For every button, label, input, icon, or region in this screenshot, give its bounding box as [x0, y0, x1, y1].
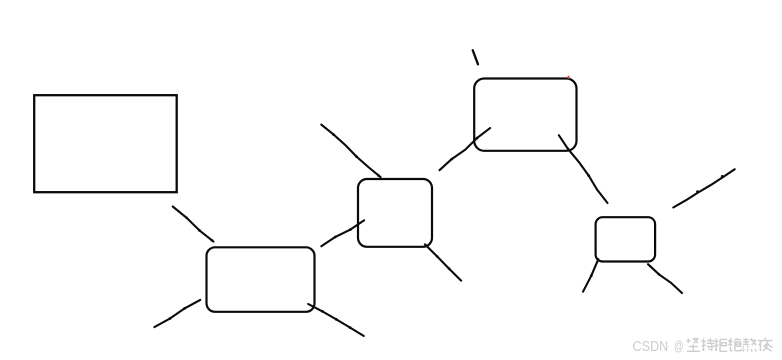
watermark glyph 熬 — [743, 338, 756, 351]
wire from box2 to box3 — [321, 220, 364, 246]
wire from box1 to box2 — [173, 207, 214, 242]
short stroke above box4 — [473, 50, 478, 64]
wire from upper-left into box3 top — [321, 125, 380, 178]
node box 3 (rounded square) — [358, 179, 432, 247]
watermark glyph 绝 — [729, 338, 742, 350]
wire below-right of box5 — [648, 264, 682, 293]
svg-text:@: @ — [674, 338, 684, 353]
detached wire upper-right of box5 — [673, 169, 734, 207]
wire from box4 to box5 — [559, 135, 608, 203]
node box 4 (rounded rectangle, top-right) — [474, 79, 576, 151]
node box 2 (rounded rectangle) — [207, 247, 315, 311]
wire from box3 to box4 — [440, 128, 491, 170]
red speck on box4 top-right — [568, 76, 570, 79]
watermark glyph 坚 — [687, 338, 700, 351]
node box 1 (plain rectangle, top-left) — [34, 95, 177, 192]
watermark glyph 持 — [701, 338, 714, 350]
wire below-left of box5 — [583, 259, 598, 292]
watermark glyph 拒 — [714, 338, 727, 351]
wire below-right of box3 — [425, 244, 461, 280]
wire below-right of box2 — [308, 304, 364, 336]
node box 5 (small rounded rectangle) — [596, 217, 656, 261]
wire below-left of box2 — [154, 300, 200, 327]
watermark glyph 夜 — [758, 338, 773, 352]
svg-text:CSDN: CSDN — [633, 338, 669, 355]
